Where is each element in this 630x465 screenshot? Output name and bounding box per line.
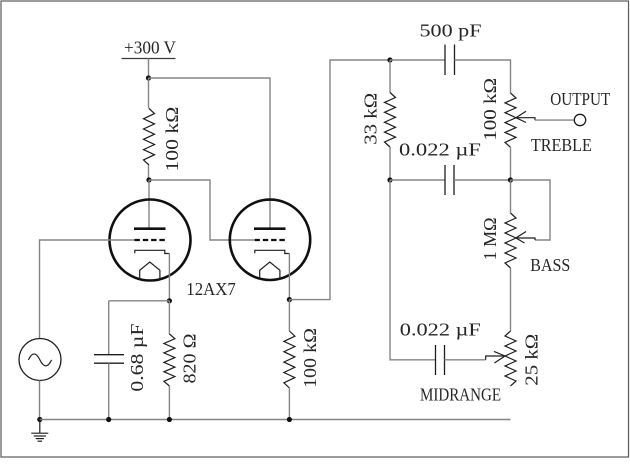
wire R3 bottom lead: [288, 388, 290, 420]
svg-text:0.68 µF: 0.68 µF: [127, 324, 147, 392]
tube V2 cathode: [255, 250, 290, 253]
wire VR1 wiper to output: [535, 119, 574, 121]
wire C4 to VR3 wiper: [445, 359, 486, 361]
tube V1 (12AX7 section a) envelope: [110, 200, 191, 281]
svg-text:25 kΩ: 25 kΩ: [522, 334, 542, 386]
wire C3 to treble bottom node: [454, 179, 511, 181]
wire R4 33k top lead: [389, 60, 391, 93]
tube V2 grid (dashed): [255, 239, 286, 241]
resistor R1 100 kΩ plate load: [144, 109, 155, 166]
resistor R4 33 kΩ: [385, 93, 396, 148]
svg-text:TREBLE: TREBLE: [531, 135, 592, 155]
junction supply node: [146, 75, 151, 80]
junction treble/bass node: [508, 177, 513, 182]
svg-text:0.022 µF: 0.022 µF: [399, 139, 481, 159]
junction mid row left node: [387, 177, 392, 182]
wire node A to V2 grid: [149, 180, 254, 240]
tube V1 cathode: [135, 250, 170, 253]
junction C1 at ground bus: [106, 417, 111, 422]
capacitor C3 0.022 µF plates: [445, 165, 454, 195]
wire R2 top lead: [168, 301, 170, 334]
svg-text:100 kΩ: 100 kΩ: [480, 78, 500, 141]
wiper VR3 arrow: [486, 351, 505, 363]
wire VS bottom lead: [39, 381, 41, 420]
source VS sine symbol: [28, 354, 51, 366]
junction V1 cathode node: [167, 298, 172, 303]
svg-text:MIDRANGE: MIDRANGE: [420, 385, 501, 405]
wire cathode node to C1: [109, 300, 170, 302]
potentiometer VR2 bass 1 MΩ element: [505, 213, 516, 268]
wire V1 plate lead: [148, 180, 150, 228]
junction V2 cathode node: [287, 297, 292, 302]
wire C2 to treble top: [455, 60, 511, 93]
wire V1 cathode drop: [168, 254, 170, 301]
junction plate node A: [146, 177, 151, 182]
wire R2 bottom lead: [168, 386, 170, 420]
tube V2 plate: [254, 227, 286, 230]
wire VR2 bottom to VR3 top: [510, 268, 512, 331]
wire cathode output riser to tone stack: [289, 60, 390, 300]
resistor R3 100 kΩ cathode follower load: [284, 331, 295, 388]
tube V1 heater: [140, 262, 160, 280]
tube V2 (12AX7 section b) envelope: [230, 200, 310, 280]
ground symbol: [31, 420, 48, 442]
wire treble bottom node to bass wiper: [511, 180, 551, 240]
resistor R2 820 Ω cathode: [164, 334, 175, 386]
tube V1 plate: [134, 227, 166, 230]
wire mid-row node down the left side: [390, 180, 436, 360]
junction tone stack top node: [387, 57, 392, 62]
wire top node to C2: [390, 59, 445, 61]
tube V2 heater: [260, 262, 280, 280]
svg-text:33 kΩ: 33 kΩ: [361, 93, 381, 145]
svg-text:820 Ω: 820 Ω: [180, 334, 200, 384]
wire C1 bottom lead: [108, 363, 110, 419]
wire R1 top lead: [148, 78, 150, 109]
svg-text:1 MΩ: 1 MΩ: [480, 217, 500, 260]
wiper VR2 arrow: [516, 232, 535, 244]
junction R3 at ground bus: [287, 417, 292, 422]
svg-text:100 kΩ: 100 kΩ: [300, 328, 320, 388]
svg-text:100 kΩ: 100 kΩ: [162, 107, 182, 172]
terminal OUTPUT circle: [574, 114, 585, 125]
capacitor C2 500 pF plates: [445, 45, 455, 76]
wire +300V lead down: [148, 59, 150, 79]
svg-text:BASS: BASS: [530, 255, 570, 275]
wire C1 top lead: [108, 301, 110, 355]
potentiometer VR1 treble 100 kΩ element: [505, 93, 516, 147]
wire R1 bottom lead: [148, 165, 150, 180]
wire R4 bottom lead: [389, 147, 391, 180]
svg-text:0.022 µF: 0.022 µF: [400, 319, 481, 339]
junction R2 at ground bus: [167, 417, 172, 422]
wire R3 top lead: [288, 300, 290, 331]
svg-text:OUTPUT: OUTPUT: [550, 89, 610, 109]
wire V2 cathode drop: [288, 254, 290, 300]
wire VR1 bottom lead: [510, 147, 512, 180]
wiper VR1 arrow: [516, 111, 535, 122]
wire ground bus: [40, 419, 511, 421]
potentiometer VR3 midrange 25 kΩ element: [505, 331, 516, 386]
junction ground bus at source: [37, 417, 42, 422]
wire V1 grid input: [40, 240, 135, 339]
wire supply rail to V2 plate: [149, 78, 271, 228]
capacitor C1 0.68 µF plates: [94, 355, 124, 364]
source VS signal generator: [19, 339, 61, 381]
node +300V supply label: [122, 38, 177, 59]
wire mid row left to C3: [390, 179, 445, 181]
svg-text:500 pF: 500 pF: [420, 21, 482, 41]
svg-text:12AX7: 12AX7: [186, 279, 236, 299]
svg-text:+300 V: +300 V: [124, 38, 176, 58]
tube V1 grid (dashed): [135, 239, 166, 241]
capacitor C4 0.022 µF plates: [436, 345, 445, 375]
wire VR2 top lead: [510, 180, 512, 213]
